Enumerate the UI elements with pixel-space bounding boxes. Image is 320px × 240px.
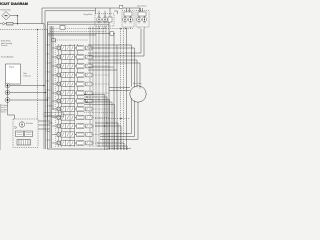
- valve section dozer: [52, 123, 109, 128]
- swivel joint: [130, 86, 146, 102]
- bottom mesh horizontals: [95, 118, 130, 120]
- wire dashed pilot line: [0, 29, 48, 31]
- wire pilot lines right: [38, 121, 50, 129]
- top cluster swing motor: [84, 8, 115, 29]
- pump P2: [5, 90, 10, 95]
- wire P1 out: [10, 85, 44, 87]
- text pump label: [24, 73, 32, 77]
- wire bus link: [114, 11, 118, 14]
- svg-text:Boom 2: Boom 2: [47, 90, 52, 92]
- wire pump shaft: [7, 84, 9, 103]
- valve section arm2: [52, 98, 109, 103]
- solenoid box: [110, 32, 114, 36]
- svg-text:(2.9 MPa): (2.9 MPa): [1, 109, 8, 111]
- top gallery line: [48, 23, 110, 25]
- svg-text:RCUIT DIAGRAM: RCUIT DIAGRAM: [0, 2, 28, 6]
- travel bundle elbows: [84, 95, 115, 151]
- text pump note: [1, 104, 8, 114]
- pilot valve block A: [16, 131, 24, 137]
- wires into swivel left: [109, 88, 130, 91]
- gallery lines: [59, 44, 78, 147]
- valve section travel rh: [52, 115, 109, 120]
- wire pilot pump down: [8, 103, 15, 119]
- valve section spare: [52, 132, 109, 137]
- top cluster arm cylinders: [136, 4, 149, 28]
- pilot unit dashed box: [13, 119, 38, 148]
- left riser bundle: [44, 24, 53, 149]
- wire dashed top return: [88, 28, 133, 30]
- wire dashed pilot drop: [37, 30, 39, 120]
- pilot pump circle: [19, 122, 24, 127]
- relief box: [52, 39, 55, 42]
- wire P3 out: [10, 99, 48, 101]
- main supply bus lower: [45, 11, 96, 25]
- top pilot dash rows: [50, 27, 106, 29]
- label box: [7, 22, 14, 25]
- svg-text:max 20 l: max 20 l: [1, 107, 7, 109]
- staircase to swivel: [88, 45, 135, 48]
- wires through swivel: [132, 98, 139, 140]
- top cluster boom cylinders: [122, 8, 134, 29]
- svg-text:Suction Amplifier: Suction Amplifier: [1, 56, 14, 59]
- MCV outer box: [48, 22, 110, 149]
- filter F1: [2, 12, 10, 20]
- pump P1: [5, 83, 10, 88]
- solenoid on bus: [119, 5, 123, 8]
- scan edge artifact: [0, 104, 2, 150]
- main supply bus upper: [42, 8, 141, 24]
- svg-text:LH Speed: LH Speed: [47, 106, 54, 108]
- svg-text:Engine: Engine: [9, 67, 14, 69]
- engine box: [6, 64, 21, 84]
- pilot valve block B: [25, 131, 33, 137]
- text relief note: [1, 41, 12, 48]
- valve section boom1: [52, 45, 109, 50]
- right outer risers: [114, 33, 117, 150]
- wire dashed travel pilot: [84, 112, 114, 114]
- valve section arm1: [52, 54, 109, 59]
- section labels: [46, 45, 57, 142]
- check valve bottom: [14, 126, 16, 128]
- svg-text:Swing: Swing: [47, 72, 51, 74]
- valve section travel lh: [52, 106, 109, 111]
- relief valve box top: [60, 26, 65, 30]
- svg-text:Pressure: Pressure: [1, 45, 7, 47]
- svg-text:Main: Main: [24, 73, 28, 75]
- pump P3: [5, 98, 10, 103]
- valve section swing: [52, 72, 109, 77]
- wire filter to riser: [10, 16, 17, 24]
- valve section boom2: [52, 90, 109, 95]
- pilot gallery dashed: [55, 40, 57, 147]
- travel label box: [44, 113, 64, 117]
- svg-text:Relief of Flow: Relief of Flow: [1, 41, 12, 43]
- tank strainer: [17, 140, 31, 146]
- far right risers: [132, 29, 145, 89]
- svg-text:30 l/min: 30 l/min: [1, 112, 6, 114]
- check valve V1: [2, 22, 5, 25]
- junction dots risers: [90, 45, 107, 100]
- valve section bucket: [52, 63, 109, 68]
- valve section aux: [52, 81, 109, 86]
- inlet gallery lines: [48, 34, 114, 36]
- valve section bottom: [52, 140, 109, 145]
- wire P2 out: [10, 92, 46, 94]
- right inner risers: [90, 26, 106, 147]
- wire pilot feed: [0, 23, 44, 25]
